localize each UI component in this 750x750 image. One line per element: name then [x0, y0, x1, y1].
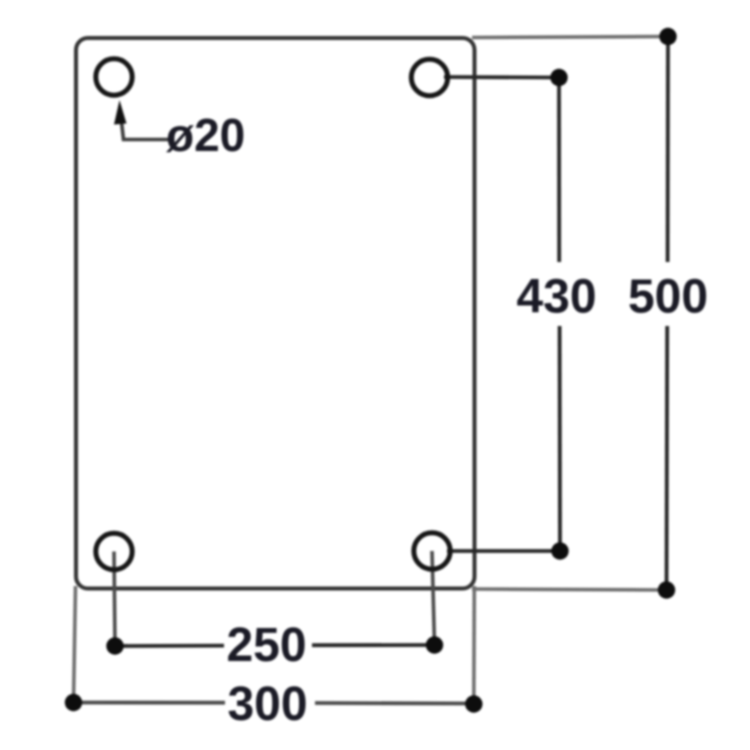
svg-text:430: 430 — [516, 270, 596, 323]
svg-text:ø20: ø20 — [166, 109, 245, 161]
svg-text:300: 300 — [227, 678, 307, 731]
svg-text:250: 250 — [226, 619, 306, 672]
svg-text:500: 500 — [628, 270, 708, 323]
